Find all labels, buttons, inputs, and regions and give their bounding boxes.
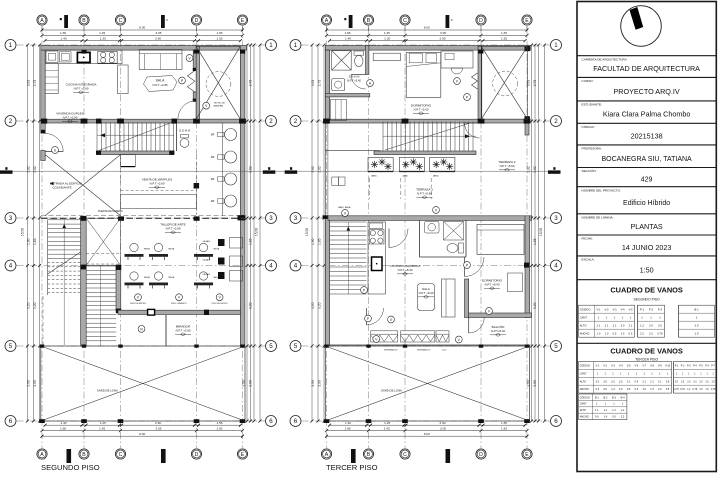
svg-text:1: 1 [294, 42, 298, 49]
column block [323, 119, 330, 124]
svg-text:SEGUNDO PISO: SEGUNDO PISO [633, 298, 660, 302]
stair void dashed lines [86, 253, 120, 255]
svg-text:6: 6 [54, 148, 56, 152]
grid line 2 [302, 120, 551, 122]
svg-text:N.P.T +2.80: N.P.T +2.80 [176, 329, 191, 333]
svg-text:0.76: 0.76 [693, 389, 698, 391]
bottom dimension tier 1 [45, 424, 241, 426]
svg-text:FACULTAD DE ARQUITECTURA: FACULTAD DE ARQUITECTURA [593, 64, 700, 73]
svg-text:S.S.H.H: S.S.H.H [349, 75, 360, 79]
bottom dimension 8.00 [327, 435, 528, 437]
waffle bar table 1 [121, 195, 197, 209]
column block [402, 119, 409, 124]
svg-text:1.25: 1.25 [384, 421, 390, 425]
svg-text:1.3: 1.3 [650, 388, 654, 391]
bath2 sink [425, 222, 440, 234]
section marker horizontal [263, 170, 276, 173]
svg-text:PISO DE MICRO: PISO DE MICRO [212, 303, 228, 305]
svg-text:PISO DE MICRO: PISO DE MICRO [130, 303, 146, 305]
dimension line vertical [317, 45, 319, 421]
svg-text:1.45: 1.45 [99, 426, 105, 430]
window markers [373, 336, 380, 343]
grid bubble E top [522, 15, 532, 25]
svg-text:2.0: 2.0 [611, 380, 615, 383]
svg-text:1.85: 1.85 [533, 238, 537, 245]
svg-text:0.5: 0.5 [627, 388, 631, 391]
svg-text:TERCER PISO: TERCER PISO [635, 358, 658, 362]
svg-text:1.55: 1.55 [216, 421, 222, 425]
easel workstation [199, 272, 207, 280]
main stair flight [86, 266, 116, 346]
svg-text:0.9: 0.9 [635, 380, 639, 383]
svg-text:VENTANA V-8: VENTANA V-8 [384, 349, 398, 352]
svg-text:1.83: 1.83 [216, 31, 222, 35]
marker circle p4 [138, 326, 145, 333]
marker circle wall 3 [203, 102, 210, 109]
svg-text:D: D [479, 18, 483, 24]
grid bubble A bottom [321, 449, 331, 459]
svg-text:15.00: 15.00 [21, 228, 25, 236]
section marker bottom 1 [351, 449, 356, 463]
svg-text:1.83: 1.83 [216, 426, 222, 430]
svg-text:1: 1 [554, 42, 558, 49]
column block [239, 119, 246, 124]
top exterior wall [41, 46, 247, 51]
grid line 4 [17, 265, 266, 267]
upper return stair flight [48, 220, 81, 346]
grid bubble D top [476, 15, 486, 25]
grid line D [480, 27, 482, 448]
left exterior wall upper [41, 50, 45, 133]
svg-text:MESA: MESA [169, 276, 175, 279]
svg-text:0.76: 0.76 [674, 389, 679, 391]
marker circle p3 [216, 294, 223, 301]
svg-text:MF: MF [211, 177, 215, 181]
svg-text:3.00: 3.00 [318, 380, 322, 387]
svg-text:CAJA B: CAJA B [202, 259, 210, 262]
terrace cross brace [41, 346, 245, 421]
svg-text:N.P.T +2.80: N.P.T +2.80 [150, 182, 165, 186]
title row CURSO: [577, 76, 716, 78]
grid line E [242, 27, 244, 448]
grid bubble D bottom [476, 449, 486, 459]
dresser [373, 53, 400, 60]
jardinera planter 3 [430, 158, 455, 172]
svg-text:N.P.T +2.80: N.P.T +2.80 [74, 87, 89, 91]
dimension line vertical [259, 45, 261, 421]
svg-text:1.30: 1.30 [100, 36, 106, 40]
stair divider wall [81, 216, 87, 345]
bottom dimension tier 2 [42, 430, 243, 432]
logo circle [621, 6, 662, 47]
grid bubble B bottom [79, 449, 89, 459]
title row FECHA: [577, 234, 716, 236]
svg-text:1.1: 1.1 [604, 409, 608, 412]
svg-text:3.20: 3.20 [249, 302, 253, 309]
svg-text:V-5: V-5 [628, 307, 633, 311]
door marker circle [52, 147, 59, 154]
svg-text:D: D [195, 452, 199, 458]
right exterior wall [240, 50, 245, 346]
terrace boundary [41, 346, 245, 421]
jardinera planter 2 [399, 158, 424, 172]
svg-text:1.55: 1.55 [501, 421, 507, 425]
divider block top [80, 216, 86, 221]
grid bubble C top [115, 15, 125, 25]
svg-text:N.P.T +5.60: N.P.T +5.60 [347, 78, 362, 82]
wash basin [225, 195, 237, 207]
kitchen counter top run [45, 50, 122, 64]
svg-text:2.1: 2.1 [642, 380, 646, 383]
kitchen sink 2 [370, 223, 383, 229]
svg-text:SALA: SALA [156, 79, 165, 83]
svg-text:6: 6 [9, 418, 13, 425]
shower [332, 51, 352, 71]
svg-text:1.0: 1.0 [597, 331, 601, 335]
stair opening dashed edge [42, 296, 44, 345]
marker circle [464, 94, 471, 101]
svg-text:0.5: 0.5 [603, 388, 607, 391]
svg-text:P-3: P-3 [658, 307, 663, 311]
marker circle [486, 308, 493, 315]
svg-text:20215138: 20215138 [631, 132, 663, 141]
svg-text:1.45: 1.45 [384, 426, 390, 430]
left exterior wall at entrance [41, 151, 45, 161]
grid line C [120, 27, 122, 448]
svg-text:2.0: 2.0 [649, 323, 653, 327]
svg-text:3.00: 3.00 [249, 380, 253, 387]
top exterior wall [325, 46, 531, 51]
row-2 interior wall [325, 119, 529, 123]
marker circle [361, 287, 368, 294]
grid bubble 3 left [290, 213, 301, 224]
stair rail top block [116, 265, 121, 270]
svg-text:3: 3 [269, 215, 273, 222]
svg-text:N.P.T +8.40: N.P.T +8.40 [485, 283, 500, 287]
svg-text:2: 2 [294, 118, 298, 125]
grid bubble 1 right [266, 40, 277, 51]
row5 boundary [325, 344, 530, 346]
top dimension tier 2 [327, 34, 528, 36]
left exterior wall rows 3-5 [325, 216, 329, 345]
svg-text:3.20: 3.20 [533, 302, 537, 309]
grid bubble C bottom [115, 449, 125, 459]
grid bubble C top [400, 15, 410, 25]
section marker horizontal [548, 170, 561, 173]
column block [478, 119, 485, 124]
svg-text:5: 5 [554, 343, 558, 350]
X panel corner blocks [194, 50, 199, 54]
svg-text:1.0: 1.0 [642, 388, 646, 391]
svg-text:3.92: 3.92 [311, 166, 315, 173]
dimension line vertical [531, 45, 533, 421]
waffle dashed line [121, 190, 197, 192]
grid bubble 2 right [266, 116, 277, 127]
grid bubble B top [363, 15, 373, 25]
dimension line vertical [246, 45, 248, 421]
svg-text:CUADRO DE VANOS: CUADRO DE VANOS [610, 286, 683, 295]
column block row2 A [41, 119, 47, 124]
sala label hexagon [144, 76, 178, 92]
grid bubble B top [79, 15, 89, 25]
svg-text:1.68: 1.68 [60, 426, 66, 430]
svg-text:2.90: 2.90 [155, 421, 161, 425]
desk chair [451, 68, 463, 74]
grid bubble 3 right [551, 213, 562, 224]
svg-text:1.2: 1.2 [611, 388, 615, 391]
fridge [46, 51, 58, 63]
sofa 2 [442, 279, 456, 317]
svg-text:0.3: 0.3 [635, 388, 639, 391]
svg-text:ANCHO: ANCHO [580, 388, 589, 391]
title row NOMBRE DE LÁMINA: [577, 213, 716, 215]
svg-text:3.03: 3.03 [27, 80, 31, 87]
svg-text:2.1: 2.1 [597, 323, 601, 327]
svg-text:E: E [525, 18, 529, 24]
svg-text:1.30: 1.30 [384, 36, 390, 40]
svg-text:PISO CEMENTO: PISO CEMENTO [171, 303, 187, 305]
svg-text:CANT.: CANT. [580, 403, 588, 406]
dimension line vertical [39, 45, 41, 421]
bottom dimension tier 2 [327, 430, 528, 432]
grid bubble 5 right [266, 341, 277, 352]
svg-text:3.92: 3.92 [527, 166, 531, 173]
svg-text:3: 3 [294, 215, 298, 222]
grid line 2 [17, 120, 266, 122]
svg-text:V-8: V-8 [650, 365, 654, 368]
title row PROFESORA: [577, 144, 716, 146]
grid bubble 4 right [551, 260, 562, 271]
svg-text:2: 2 [554, 118, 558, 125]
svg-text:CANT.: CANT. [580, 315, 588, 319]
section marker top 1 [349, 15, 353, 28]
section marker horizontal [285, 170, 298, 173]
cabinet right 1 [230, 238, 243, 249]
marker circle [464, 262, 471, 269]
grid bubble D bottom [191, 449, 201, 459]
bath sink [332, 79, 345, 91]
svg-text:2.2: 2.2 [640, 331, 644, 335]
left parapet rows 2-3 [324, 123, 326, 216]
svg-text:8.00: 8.00 [424, 26, 430, 30]
svg-text:3.92: 3.92 [33, 166, 37, 173]
svg-text:A: A [325, 18, 329, 24]
left exterior wall [325, 50, 329, 119]
svg-text:1.68: 1.68 [344, 31, 350, 35]
svg-text:MESA: MESA [144, 248, 150, 251]
terrace cross brace [325, 346, 529, 421]
easel workstation [199, 243, 207, 251]
svg-text:2.90: 2.90 [439, 36, 445, 40]
small cabinet [121, 155, 136, 167]
section marker top 2 [446, 15, 450, 28]
column block top wall B [82, 50, 87, 54]
section marker bottom 2 [161, 449, 166, 463]
title row CARRERA DE ARQUITECTURA. [577, 55, 716, 57]
stove [98, 51, 117, 63]
svg-text:N.P.T+8.40: N.P.T+8.40 [491, 329, 506, 333]
cuadro de vanos 1 header [577, 279, 716, 281]
svg-text:2.0: 2.0 [658, 323, 662, 327]
svg-text:6: 6 [554, 418, 558, 425]
svg-text:COLINDANTE: COLINDANTE [52, 186, 71, 190]
easel workstation [130, 243, 138, 251]
svg-text:V-9: V-9 [658, 365, 662, 368]
marker circle [367, 80, 374, 87]
svg-text:3.5: 3.5 [666, 388, 670, 391]
cabinet right 3 [230, 271, 243, 282]
svg-text:2.1: 2.1 [613, 323, 617, 327]
svg-text:C: C [403, 18, 407, 24]
svg-text:1: 1 [269, 42, 273, 49]
svg-text:1.45: 1.45 [384, 31, 390, 35]
svg-text:V-6: V-6 [635, 365, 639, 368]
svg-text:V-5: V-5 [627, 365, 631, 368]
svg-text:ESTUDIANTE:: ESTUDIANTE: [582, 103, 603, 107]
column block [117, 119, 124, 124]
svg-text:1.68: 1.68 [60, 31, 66, 35]
row-3 partition line [41, 215, 245, 217]
svg-text:N.P.T +2.80: N.P.T +2.80 [152, 83, 167, 87]
column block [524, 119, 531, 124]
easel workstation [154, 272, 162, 280]
divider block mid [80, 265, 86, 270]
svg-text:B: B [367, 18, 371, 24]
grid line B [83, 27, 85, 448]
svg-text:2.1: 2.1 [627, 380, 631, 383]
dimension line vertical [544, 45, 546, 421]
marker circle p2 [176, 294, 183, 301]
cuadro de vanos 2 header [577, 342, 716, 344]
svg-text:5: 5 [269, 343, 273, 350]
svg-text:SEGUNDO PISO: SEGUNDO PISO [41, 463, 100, 472]
label entrada [50, 182, 53, 185]
kitchen peninsula [118, 65, 129, 94]
kitchen oven 2 [372, 257, 383, 271]
stair right rail wall [116, 265, 121, 310]
svg-text:6: 6 [269, 418, 273, 425]
row-3 block D [194, 216, 200, 220]
wash basin [225, 151, 237, 163]
row-3 wall left block [323, 215, 328, 219]
easel workstation [130, 272, 138, 280]
svg-text:MESA: MESA [169, 248, 175, 251]
svg-text:1.68: 1.68 [344, 426, 350, 430]
svg-text:ESCALA:: ESCALA: [582, 258, 595, 262]
svg-text:429: 429 [641, 177, 653, 184]
dormitorio 2 door arc [465, 257, 485, 277]
svg-text:8.00: 8.00 [139, 26, 145, 30]
svg-text:2.90: 2.90 [439, 421, 445, 425]
svg-text:MADERA: MADERA [214, 104, 224, 107]
kitchen sink [60, 52, 72, 62]
side stair flight [330, 222, 367, 294]
section marker top 1 [64, 15, 68, 28]
section marker horizontal [0, 170, 13, 173]
svg-text:MF: MF [211, 133, 215, 137]
bottom dimension tier 1 [330, 424, 526, 426]
svg-text:0.5: 0.5 [629, 331, 633, 335]
svg-text:N.P.T +8.40: N.P.T +8.40 [398, 268, 413, 272]
svg-text:C: C [403, 452, 407, 458]
svg-text:2.90: 2.90 [155, 36, 161, 40]
wall between sala and terrace upper [193, 50, 196, 70]
stair flight upper [383, 122, 476, 152]
svg-text:1.85: 1.85 [249, 238, 253, 245]
grid bubble C bottom [400, 449, 410, 459]
svg-text:2.1: 2.1 [605, 323, 609, 327]
svg-text:c: c [166, 18, 168, 22]
dimension line vertical [33, 45, 35, 421]
grid bubble 3 right [266, 213, 277, 224]
svg-text:0.76: 0.76 [711, 389, 716, 391]
row-3 block C [118, 216, 124, 220]
mirador railing [118, 310, 240, 314]
svg-text:TECHO DE: TECHO DE [214, 103, 226, 105]
wall below stair flight [374, 151, 476, 155]
svg-text:CUADRO DE VANOS: CUADRO DE VANOS [610, 347, 683, 356]
svg-text:JARD.: JARD. [433, 175, 440, 178]
stair rail bottom block [116, 309, 121, 314]
kitchen stove [370, 230, 375, 235]
svg-text:0.76: 0.76 [680, 389, 685, 391]
waffle area dashed bounds [120, 155, 122, 215]
sala fold door zigzag [187, 71, 195, 93]
svg-text:2.2: 2.2 [621, 416, 625, 419]
grid bubble 6 right [266, 416, 277, 427]
svg-text:PROFESORA:: PROFESORA: [582, 147, 602, 151]
svg-text:1.40: 1.40 [60, 421, 66, 425]
grid line B [368, 27, 370, 448]
column block [193, 119, 200, 124]
svg-text:C: C [119, 18, 123, 24]
grid bubble A top [321, 15, 331, 25]
grid line 1 [17, 44, 266, 46]
top dimension tier 3 [330, 40, 526, 42]
top dimension tier 3 [45, 40, 241, 42]
grid line 5 [302, 345, 551, 347]
svg-text:1.1: 1.1 [595, 409, 599, 412]
svg-text:Kiara Clara Palma Chombo: Kiara Clara Palma Chombo [603, 110, 691, 119]
svg-text:PUENTE DE MADERA: PUENTE DE MADERA [98, 210, 123, 213]
svg-text:V-3: V-3 [611, 365, 615, 368]
balcon wall horizontal [469, 313, 532, 318]
svg-text:CÓDIGO:: CÓDIGO: [582, 124, 596, 129]
svg-text:A: A [40, 18, 44, 24]
svg-text:B-4: B-4 [621, 396, 626, 399]
grid bubble 2 left [5, 116, 16, 127]
laundry boxes [332, 177, 339, 185]
svg-text:CARRERA DE ARQUITECTURA.: CARRERA DE ARQUITECTURA. [582, 57, 628, 61]
kitchen door arc [389, 229, 408, 248]
desk [441, 51, 473, 68]
svg-text:V-2: V-2 [604, 307, 609, 311]
svg-text:C: C [119, 452, 123, 458]
right wall block row4 [524, 263, 529, 268]
wall block [193, 68, 197, 71]
logo stroke [630, 7, 644, 30]
svg-text:3.92: 3.92 [249, 166, 253, 173]
svg-text:1:50: 1:50 [640, 265, 654, 274]
dimension line vertical [27, 45, 29, 421]
grid bubble E bottom [522, 449, 532, 459]
bottom dimension 8.00 [42, 435, 243, 437]
svg-text:V-10: V-10 [665, 365, 671, 368]
grid line 5 [17, 345, 266, 347]
svg-text:E: E [241, 18, 245, 24]
svg-text:3.92: 3.92 [318, 166, 322, 173]
bath2 shower [444, 222, 464, 241]
